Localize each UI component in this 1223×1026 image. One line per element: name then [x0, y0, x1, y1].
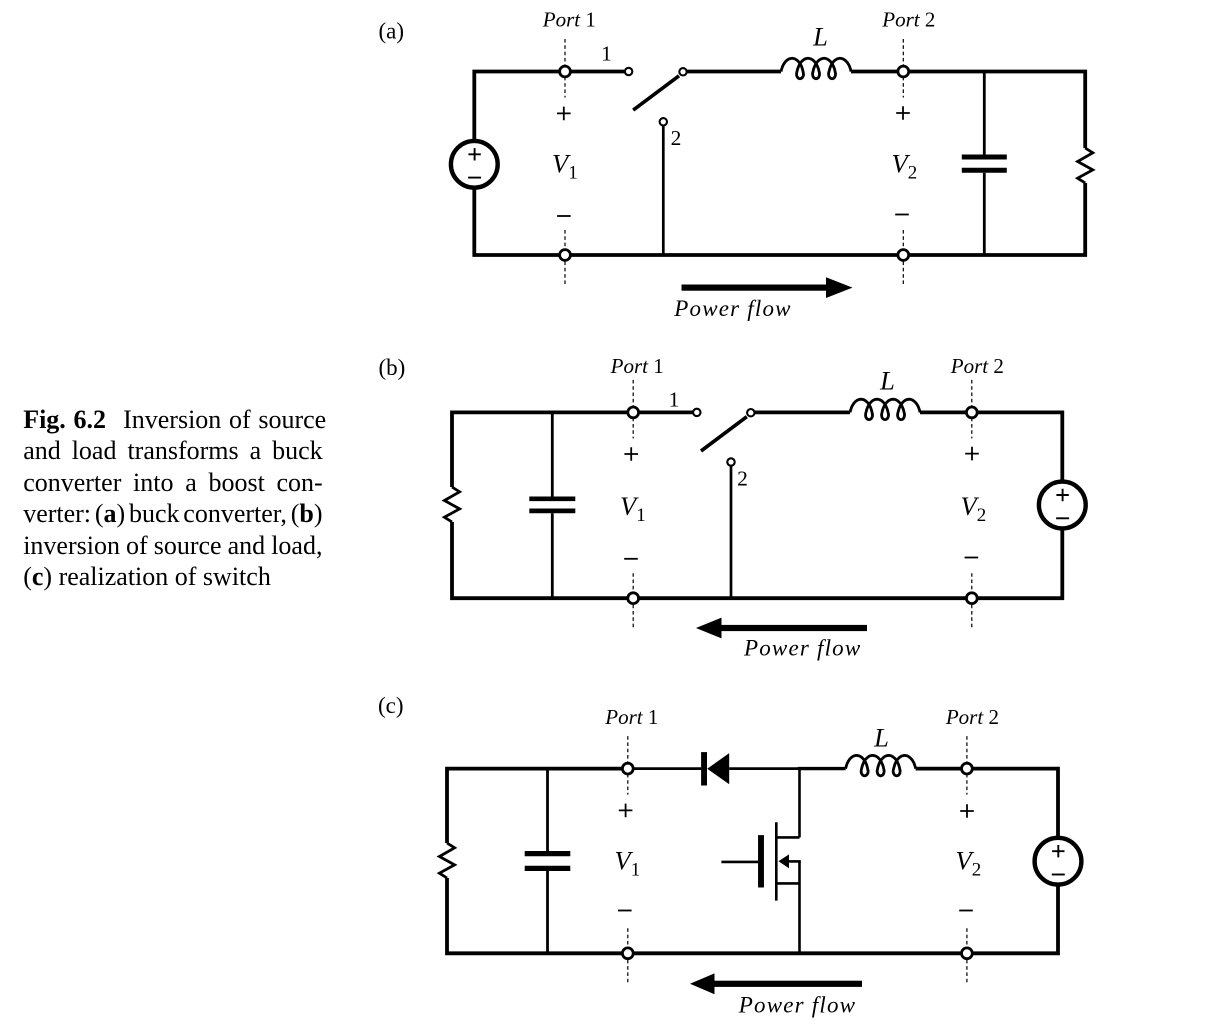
switch blade: [701, 417, 747, 451]
inductor L (a): [781, 58, 851, 78]
wire (b) inductor to right corner: [920, 412, 1062, 482]
svg-text:Power flow: Power flow: [673, 296, 791, 321]
power flow arrow (a): [682, 277, 853, 298]
voltage source V2 (c): [1035, 838, 1082, 885]
wire (b) top left: [452, 412, 693, 487]
svg-text:V1: V1: [615, 845, 641, 880]
svg-text:Port 2: Port 2: [950, 354, 1004, 378]
dashed port marker lines (b): [633, 380, 972, 630]
node Port2+ (c): [962, 763, 973, 774]
dashed port marker lines (c): [628, 736, 967, 985]
label V1 (c): [615, 845, 641, 880]
capacitor C (b): [529, 499, 575, 511]
wire (c) junction to inductor: [798, 767, 846, 770]
switch contact 1: [625, 68, 632, 75]
inductor L (b): [850, 399, 920, 419]
plus V2 (c): [960, 804, 974, 818]
svg-text:(a): (a): [379, 19, 405, 44]
power flow arrow (c): [690, 973, 862, 994]
transistor Q1 MOSFET (c): [721, 769, 800, 954]
svg-text:Port 1: Port 1: [604, 705, 658, 729]
wire (a) bottom: [474, 183, 1085, 255]
label 1 (a): [601, 42, 612, 66]
switch contact 2: [660, 118, 667, 125]
svg-text:Power flow: Power flow: [738, 993, 856, 1018]
svg-text:V2: V2: [892, 148, 918, 183]
label 2 (a): [671, 126, 682, 150]
wire (a) switch throw 2 stub: [662, 126, 665, 255]
svg-text:Port 1: Port 1: [542, 7, 596, 31]
label Port 2 (a): [881, 7, 935, 31]
label Port 1 (c): [604, 705, 658, 729]
power flow arrow (b): [696, 618, 867, 639]
label Port 2 (c): [945, 705, 999, 729]
resistor R (b): [444, 487, 459, 522]
svg-text:2: 2: [737, 466, 748, 490]
label Port 2 (b): [950, 354, 1004, 378]
wire (b) switch pivot to inductor: [755, 410, 851, 414]
node Port1+ (c): [622, 763, 633, 774]
node Port1- (a): [560, 250, 571, 261]
minus V2 (b): [965, 557, 979, 559]
node Port2+ (b): [966, 407, 977, 418]
svg-text:Power flow: Power flow: [743, 636, 861, 661]
switch pivot contact: [679, 68, 686, 75]
label Power flow (a): [673, 296, 791, 321]
plus V2 (b): [965, 447, 979, 461]
label V2 (a): [892, 148, 918, 183]
node Port1+ (a): [560, 66, 571, 77]
node Port2- (b): [966, 593, 977, 604]
label Power flow (b): [743, 636, 861, 661]
inductor L (c): [846, 755, 916, 775]
label Port 1 (b): [610, 354, 664, 378]
diode D1 (c): [701, 752, 729, 785]
wire (c) bottom: [447, 878, 1058, 953]
plus V1 (a): [557, 107, 571, 121]
svg-text:(b): (b): [379, 355, 406, 380]
svg-text:V2: V2: [961, 491, 987, 526]
label V2 (b): [961, 491, 987, 526]
svg-text:V2: V2: [956, 845, 982, 880]
svg-text:V1: V1: [620, 491, 646, 526]
label V1 (a): [552, 148, 578, 183]
dashed port marker lines (a): [565, 39, 903, 287]
figure caption: [23, 404, 323, 435]
resistor R (a): [1078, 148, 1093, 183]
wire (c) capacitor branch: [546, 769, 549, 954]
subfigure label (b): [379, 355, 406, 380]
wire (a) inductor to right corner: [851, 72, 1085, 149]
label 2 (b): [737, 466, 748, 490]
svg-text:L: L: [873, 723, 889, 753]
svg-text:1: 1: [669, 388, 680, 412]
wire (a) switch pivot to inductor: [687, 70, 781, 74]
label V1 (b): [620, 491, 646, 526]
label Port 1 (a): [542, 7, 596, 31]
wire (c) inductor to right corner: [916, 769, 1058, 839]
label L (c): [873, 723, 889, 753]
node Port2- (c): [962, 948, 973, 959]
wire (b) switch throw 2 stub: [730, 466, 733, 598]
subfigure label (c): [378, 693, 404, 718]
plus V1 (b): [624, 447, 638, 461]
svg-text:Port 1: Port 1: [610, 354, 664, 378]
svg-text:1: 1: [601, 42, 612, 66]
wire (a) top left: source to switch contact 1: [474, 72, 625, 141]
minus V1 (c): [618, 910, 632, 912]
minus V1 (b): [624, 558, 638, 560]
node Port2+ (a): [898, 66, 909, 77]
label Power flow (c): [738, 993, 856, 1018]
label V2 (c): [956, 845, 982, 880]
resistor R (c): [439, 843, 454, 878]
node Port1- (c): [622, 948, 633, 959]
minus V2 (c): [959, 910, 973, 912]
voltage source V2 (b): [1039, 482, 1086, 529]
svg-text:Port 2: Port 2: [881, 7, 935, 31]
node Port2- (a): [898, 250, 909, 261]
switch pivot contact: [747, 409, 754, 416]
capacitor C (a): [962, 157, 1007, 170]
plus V1 (c): [619, 804, 633, 818]
plus V2 (a): [896, 106, 910, 120]
svg-text:2: 2: [671, 126, 682, 150]
switch blade: [633, 76, 679, 110]
label L (a): [812, 22, 828, 52]
wire (c) port1 to diode: [628, 767, 702, 770]
switch contact 2: [727, 458, 734, 465]
svg-text:L: L: [812, 22, 828, 52]
label 1 (b): [669, 388, 680, 412]
voltage source Vg (a): [451, 141, 498, 188]
svg-text:L: L: [879, 366, 895, 396]
minus V1 (a): [557, 215, 571, 217]
minus V2 (a): [895, 214, 909, 216]
svg-text:(c): (c): [378, 693, 404, 718]
capacitor C (c): [525, 854, 571, 869]
wire (a) capacitor branch: [983, 72, 986, 256]
svg-text:Port 2: Port 2: [945, 705, 999, 729]
wire (c) top left: [447, 769, 628, 843]
subfigure label (a): [379, 19, 405, 44]
switch contact 1: [693, 409, 700, 416]
label L (b): [879, 366, 895, 396]
node Port1+ (b): [628, 407, 639, 418]
node Port1- (b): [628, 593, 639, 604]
wire (c) diode to junction: [729, 767, 799, 770]
wire (b) bottom: [452, 522, 1062, 598]
svg-text:V1: V1: [552, 148, 578, 183]
wire (b) capacitor branch: [551, 412, 554, 598]
